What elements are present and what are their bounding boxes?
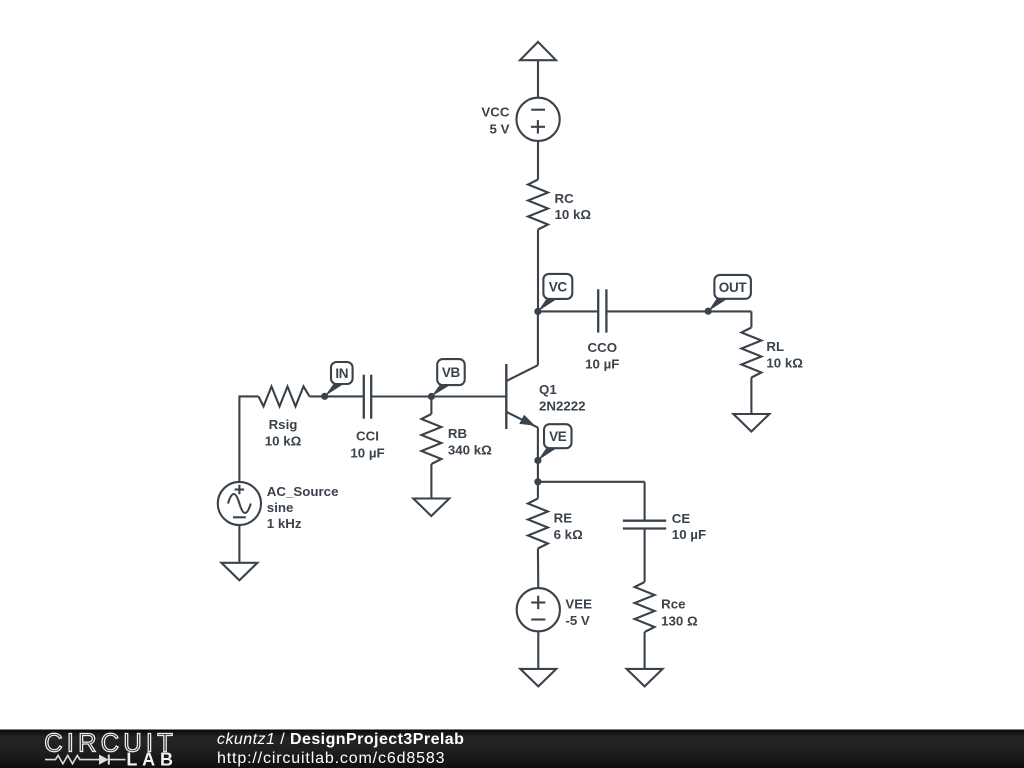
wire VEE-to-ground: [537, 631, 539, 669]
wire Rce-to-ground: [644, 632, 646, 669]
svg-text:AC_Source: AC_Source: [267, 484, 339, 499]
CircuitLab logo: [30, 725, 230, 768]
capacitor CE 10uF: [623, 511, 706, 542]
ground (VEE): [520, 669, 556, 687]
footer bar: [0, 729, 1024, 768]
svg-text:VCC: VCC: [481, 104, 509, 119]
wire CCO-to-corner: [606, 310, 751, 312]
svg-text:LAB: LAB: [126, 750, 177, 768]
wire RE-to-VEE: [537, 549, 539, 589]
svg-text:CCO: CCO: [588, 340, 618, 355]
wire VC node to CCO: [538, 310, 598, 312]
svg-text:10 kΩ: 10 kΩ: [766, 356, 803, 371]
footer title ckuntz1 / DesignProject3Prelab: [217, 731, 464, 749]
svg-text:1 kHz: 1 kHz: [267, 516, 302, 531]
resistor Rce 130: [635, 582, 698, 632]
wire collector: [537, 311, 539, 365]
svg-text:RL: RL: [766, 339, 784, 354]
svg-text:2N2222: 2N2222: [539, 398, 586, 413]
svg-text:Q1: Q1: [539, 382, 557, 397]
svg-text:IN: IN: [335, 366, 348, 381]
svg-text:VEE: VEE: [565, 596, 592, 611]
wire VB-to-RB: [430, 397, 432, 415]
junction VE/RE/CE: [534, 478, 541, 485]
capacitor CCO 10uF: [585, 289, 619, 371]
svg-text:RC: RC: [555, 191, 575, 206]
svg-text:10 kΩ: 10 kΩ: [265, 433, 302, 448]
wire Rsig-to-CCI: [310, 395, 364, 397]
resistor RL 10k: [741, 328, 803, 378]
wire CCI-to-base: [371, 395, 506, 397]
node OUT: [705, 275, 751, 315]
node VB: [428, 359, 465, 400]
svg-text:Rsig: Rsig: [269, 417, 298, 432]
ground (RB): [413, 499, 449, 517]
wire junction-to-RE: [537, 482, 539, 499]
wire down to CE: [644, 482, 646, 520]
voltage source AC_Source sine 1kHz: [218, 482, 339, 531]
voltage source VEE -5V: [517, 588, 592, 631]
node VE: [534, 424, 571, 464]
resistor RC 10k: [528, 180, 591, 230]
ground (RL): [733, 414, 769, 432]
node IN: [321, 362, 353, 400]
wire corner down to RL: [750, 311, 752, 327]
ground (Rce): [627, 669, 663, 687]
svg-text:10 µF: 10 µF: [350, 445, 384, 460]
svg-text:RE: RE: [554, 511, 573, 526]
resistor Rsig 10k: [259, 386, 310, 448]
wire CE-to-Rce: [644, 529, 646, 582]
power flag VCC (up arrow): [520, 42, 556, 60]
svg-text:130 Ω: 130 Ω: [661, 613, 698, 628]
wire RB-to-ground: [430, 464, 432, 499]
svg-text:5 V: 5 V: [490, 121, 510, 136]
wire junction-to-CE branch: [538, 481, 645, 483]
wire flag-to-VCC: [537, 60, 539, 98]
svg-text:VE: VE: [549, 429, 567, 444]
svg-text:CE: CE: [672, 511, 691, 526]
svg-text:6 kΩ: 6 kΩ: [554, 527, 583, 542]
resistor RE 6k: [528, 499, 583, 549]
wire AC-to-ground: [238, 525, 240, 563]
wire emitter: [537, 428, 539, 482]
svg-text:10 µF: 10 µF: [585, 357, 619, 372]
svg-text:CCI: CCI: [356, 428, 379, 443]
wire VCC-to-RC: [537, 141, 539, 180]
voltage source VCC 5V: [481, 98, 559, 141]
wire RL-to-ground: [750, 378, 752, 415]
capacitor CCI 10uF: [350, 375, 384, 461]
svg-text:VB: VB: [442, 365, 461, 380]
transistor Q1 2N2222: [506, 364, 585, 429]
ground (AC_Source): [221, 563, 257, 581]
svg-text:OUT: OUT: [719, 280, 748, 295]
wire RC-to-VC: [537, 230, 539, 312]
svg-text:RB: RB: [448, 426, 467, 441]
svg-text:VC: VC: [549, 279, 568, 294]
wire AC-to-Rsig (corner): [239, 396, 258, 482]
svg-text:Rce: Rce: [661, 597, 685, 612]
svg-text:340 kΩ: 340 kΩ: [448, 442, 492, 457]
resistor RB 340k: [421, 414, 492, 464]
footer url: [217, 750, 445, 768]
node VC: [534, 274, 572, 315]
svg-text:10 kΩ: 10 kΩ: [555, 207, 592, 222]
svg-text:sine: sine: [267, 500, 294, 515]
svg-text:-5 V: -5 V: [565, 613, 590, 628]
svg-text:10 µF: 10 µF: [672, 527, 706, 542]
